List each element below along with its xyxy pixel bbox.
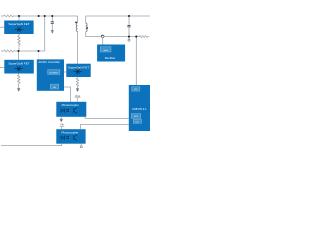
svg-text:GaN: GaN xyxy=(103,50,108,52)
wire Q1 drain stub xyxy=(18,16,20,21)
wire junction to USB PD controller xyxy=(135,37,137,85)
wire mid bus y51 xyxy=(13,50,45,52)
open terminal circle xyxy=(128,39,130,41)
svg-text:I2C: I2C xyxy=(134,89,138,91)
junction dots output bus xyxy=(128,36,130,38)
terminal stub below junction xyxy=(128,37,130,39)
transformer T1 primary dot xyxy=(75,21,77,23)
resistor R2 mid-left xyxy=(1,50,14,52)
SuperGaN FET Q1 box xyxy=(4,21,33,35)
svg-text:Vfb: Vfb xyxy=(60,123,64,127)
svg-text:OUTPUT: OUTPUT xyxy=(49,72,59,74)
AC/DC Controller U1 box xyxy=(37,59,64,90)
Rectifier U2 box xyxy=(97,45,125,62)
wire top bus left section xyxy=(13,15,78,17)
SuperGaN FET Q2 box xyxy=(4,60,34,74)
svg-text:CC: CC xyxy=(136,121,140,123)
photocoupler2 bottom terminal xyxy=(80,144,82,146)
wire FB to photocoupler1 xyxy=(64,87,71,102)
ground below C1 xyxy=(51,31,54,33)
svg-text:DPS: DPS xyxy=(134,116,139,118)
svg-text:Photocoupler: Photocoupler xyxy=(62,103,79,107)
wire OUTPUT to Q3 gate xyxy=(64,71,66,73)
wire Q2 drain stub xyxy=(18,51,20,60)
wire top bus right section xyxy=(86,15,150,17)
transformer T1 primary winding xyxy=(76,23,77,32)
OUTPUT pin box xyxy=(48,70,60,75)
svg-text:SuperGaN FET: SuperGaN FET xyxy=(68,65,89,69)
wire circle to rectifier input xyxy=(102,38,104,45)
wire transformer secondary top lead xyxy=(85,16,87,23)
junction dots top bus xyxy=(18,15,20,17)
wire R3 to mid bus xyxy=(18,48,20,51)
wire photocoupler1 to USB PD xyxy=(85,117,129,119)
wire photocoupler2 bottom-left to edge xyxy=(1,144,62,146)
Photocoupler U3 box xyxy=(56,102,86,117)
ground below photocoupler1 xyxy=(60,117,62,119)
USB PD Controller U5 box xyxy=(129,85,150,131)
svg-text:Rectifier: Rectifier xyxy=(105,56,116,60)
wire stub to AC/DC VCC xyxy=(38,51,40,59)
svg-text:AC/DC Controller: AC/DC Controller xyxy=(38,60,60,64)
wire photocoupler2 top to USB PD xyxy=(81,124,129,129)
transformer T1 secondary dot xyxy=(86,27,88,29)
svg-text:USB PD 3.1: USB PD 3.1 xyxy=(132,107,147,111)
Photocoupler U4 box xyxy=(56,129,85,144)
capacitor C1 at x52.3 xyxy=(51,16,53,21)
resistor R4 below Q2 xyxy=(18,74,20,89)
wire vertical x44.7 xyxy=(44,16,46,51)
connector circle on output wire xyxy=(101,35,104,38)
transformer T1 secondary winding xyxy=(86,23,87,32)
resistor R6 below Q3 xyxy=(76,77,78,88)
ground below R4 xyxy=(17,89,20,91)
junction dots mid bus xyxy=(17,50,19,52)
resistor R5 right xyxy=(139,36,149,38)
resistor R3 below Q1 xyxy=(18,34,20,48)
svg-text:Photocoupler: Photocoupler xyxy=(61,130,78,134)
svg-text:SuperGaN FET: SuperGaN FET xyxy=(8,61,29,65)
FB pin box xyxy=(50,84,58,89)
wire corner into transformer primary xyxy=(77,16,79,23)
wire primary to Q3 drain xyxy=(77,31,79,63)
net label Vfb xyxy=(60,123,65,130)
resistor R1 top-left xyxy=(1,15,14,17)
wire secondary down and right along y36.6 xyxy=(86,32,140,37)
wire gate stub Q1 left edge xyxy=(0,26,4,28)
capacitor C2 at x129 xyxy=(128,16,130,25)
wire gate stub Q2 left edge xyxy=(0,67,4,69)
net label Vbat xyxy=(75,94,81,102)
ground below R6 xyxy=(76,89,79,91)
SuperGaN FET Q3 box xyxy=(66,64,90,77)
svg-text:SuperGaN FET: SuperGaN FET xyxy=(8,22,29,26)
